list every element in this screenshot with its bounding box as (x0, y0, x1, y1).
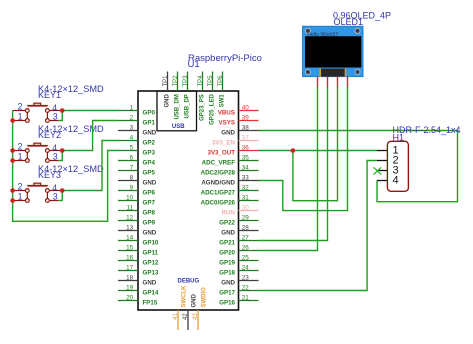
U1 pin 37 3V3_EN (212, 134, 259, 146)
svg-text:GP9: GP9 (143, 220, 156, 227)
U1 pin 40 VBUS (218, 104, 259, 116)
svg-text:18: 18 (126, 274, 134, 281)
junction (10, 118, 15, 123)
U1 pin 7 GP5 (118, 164, 155, 176)
pushbutton KEY1 (13, 102, 63, 123)
U1 pin 10 GP7 (118, 194, 155, 206)
U1 pin 33 AGND/GND (201, 174, 258, 186)
U1 pin 8 GND (118, 174, 157, 186)
U1 pin 26 GP20 (219, 244, 258, 256)
junction (60, 148, 65, 153)
DEBUG label (178, 278, 200, 284)
wire GND pin38 to H1 pin4 (259, 131, 458, 202)
svg-text:38: 38 (242, 124, 250, 131)
svg-text:GND: GND (143, 230, 157, 237)
junction (10, 158, 15, 163)
wire KEY3 to GP2 (62, 141, 118, 191)
svg-text:41: 41 (173, 313, 179, 320)
U1 pin TP3 (183, 72, 191, 119)
svg-text:GP4: GP4 (143, 160, 156, 167)
svg-text:GP13: GP13 (143, 270, 159, 277)
U1 pin 1 GP0 (118, 104, 155, 116)
svg-text:GP21: GP21 (219, 240, 235, 247)
junction (10, 198, 15, 203)
svg-text:3V3_EN: 3V3_EN (212, 140, 236, 147)
wire GP20 pin26 to OLED pin1 (259, 87, 318, 251)
svg-text:33: 33 (242, 174, 250, 181)
H1 pin 2 (377, 155, 399, 167)
wire GP21 pin27 to OLED pin2 (259, 87, 328, 241)
svg-text:GP25_LED: GP25_LED (210, 94, 216, 125)
U1 pin 13 GND (118, 224, 157, 236)
junction 3V3_OUT branch (291, 148, 296, 153)
OLED1 pin 1 (317, 77, 319, 87)
U1 pin TP4 (198, 72, 206, 121)
svg-text:TP1: TP1 (163, 75, 169, 87)
svg-text:GND: GND (143, 280, 157, 287)
svg-text:SW1: SW1 (220, 94, 226, 108)
U1 pin TP6 (218, 72, 226, 108)
wire 3V3_OUT branch to OLED pin3 (293, 87, 338, 201)
svg-text:GP6: GP6 (143, 190, 156, 197)
svg-text:KEY3: KEY3 (38, 170, 61, 180)
svg-text:GP11: GP11 (143, 250, 159, 257)
svg-text:3V3_OUT: 3V3_OUT (207, 150, 235, 157)
svg-text:GP7: GP7 (143, 200, 156, 207)
svg-text:GND: GND (221, 230, 235, 237)
text U1 reference labels (188, 53, 262, 70)
U1 pin 29 GP22 (219, 214, 258, 226)
svg-text:36: 36 (242, 144, 250, 151)
svg-text:2: 2 (18, 142, 23, 152)
svg-text:22: 22 (242, 284, 250, 291)
svg-text:25: 25 (242, 254, 250, 261)
wire KEY2 to GP1 (62, 121, 118, 151)
svg-text:TP2: TP2 (173, 75, 179, 87)
svg-text:34: 34 (242, 164, 250, 171)
connector H1 labels (393, 125, 461, 142)
svg-text:3: 3 (53, 151, 58, 161)
svg-text:1: 1 (18, 191, 23, 201)
svg-text:ADC0/GP26: ADC0/GP26 (201, 200, 236, 207)
svg-text:37: 37 (242, 134, 250, 141)
H1 pin 3 (377, 165, 399, 177)
svg-text:3: 3 (130, 124, 134, 131)
svg-text:USB_DP: USB_DP (185, 94, 191, 118)
H1 pin 4 (377, 175, 399, 187)
svg-text:17: 17 (126, 264, 134, 271)
svg-text:AGND/GND: AGND/GND (201, 180, 235, 187)
svg-text:31: 31 (242, 194, 250, 201)
svg-text:2: 2 (130, 114, 134, 121)
svg-text:GND: GND (221, 280, 235, 287)
svg-text:30: 30 (242, 204, 250, 211)
U1 pin 15 GP11 (118, 244, 159, 256)
svg-text:16: 16 (126, 254, 134, 261)
U1 pin 20 FP15 (118, 294, 158, 306)
svg-text:DEBUG: DEBUG (178, 278, 200, 284)
svg-text:GP23_PS: GP23_PS (200, 94, 206, 121)
U1 pin 16 GP12 (118, 254, 159, 266)
svg-text:GP22: GP22 (219, 220, 235, 227)
svg-text:GP3: GP3 (143, 150, 156, 157)
U1 pin 22 GP17 (219, 284, 258, 296)
svg-text:GP5: GP5 (143, 170, 156, 177)
svg-text:USB_DM: USB_DM (175, 94, 181, 119)
OLED1 pin 2 (327, 77, 329, 87)
svg-text:6: 6 (130, 154, 134, 161)
svg-text:27: 27 (242, 234, 250, 241)
svg-text:OLED1: OLED1 (334, 17, 364, 27)
svg-text:15: 15 (126, 244, 134, 251)
svg-text:GND: GND (143, 180, 157, 187)
U1 pin 38 GND (221, 124, 258, 136)
junction (10, 148, 15, 153)
U1 pin 11 GP8 (118, 204, 155, 216)
svg-text:10: 10 (126, 194, 134, 201)
U1 pin 31 ADC0/GP26 (201, 194, 259, 206)
U1 pin 30 RUN (222, 204, 259, 216)
svg-text:KEY1: KEY1 (38, 90, 61, 100)
pushbutton KEY2 labels (38, 124, 104, 140)
svg-text:GP12: GP12 (143, 260, 159, 267)
USB section box (157, 91, 197, 131)
svg-text:4: 4 (393, 175, 399, 187)
U1 pin 36 3V3_OUT (207, 144, 258, 156)
wire AGND pin33 to OLED pin4 (259, 87, 348, 211)
wire keys common to GP3 (13, 111, 118, 222)
MCU U1 body (138, 91, 239, 310)
U1 pin 4 GP2 (118, 134, 155, 146)
U1 pin 9 GP6 (118, 184, 155, 196)
svg-text:35: 35 (242, 154, 250, 161)
svg-text:5: 5 (130, 144, 134, 151)
U1 pin 5 GP3 (118, 144, 155, 156)
svg-text:2: 2 (18, 102, 23, 112)
U1 pin TP2 (173, 72, 181, 120)
svg-text:SWCLK: SWCLK (182, 285, 188, 308)
svg-text:GP1: GP1 (143, 120, 156, 127)
U1 pin TP5 (208, 72, 216, 125)
U1 pin 17 GP13 (118, 264, 159, 276)
svg-text:SWDIO: SWDIO (202, 287, 208, 308)
svg-text:40: 40 (242, 104, 250, 111)
svg-text:42: 42 (183, 313, 189, 320)
U1 pin 23 GND (221, 274, 258, 286)
svg-text:26: 26 (242, 244, 250, 251)
svg-text:U1: U1 (188, 59, 200, 70)
U1 pin 41 SWCLK (173, 285, 188, 330)
svg-text:28: 28 (242, 224, 250, 231)
U1 pin 28 GND (221, 224, 258, 236)
U1 pin 18 GND (118, 274, 157, 286)
svg-text:1: 1 (130, 104, 134, 111)
svg-text:32: 32 (242, 184, 250, 191)
OLED1 pin 4 (347, 77, 349, 87)
svg-text:3: 3 (53, 111, 58, 121)
connector H1 body (387, 141, 408, 191)
svg-text:13: 13 (126, 224, 134, 231)
svg-text:19: 19 (126, 284, 134, 291)
svg-text:GND: GND (165, 94, 171, 108)
U1 pin 12 GP9 (118, 214, 155, 226)
wire 3V3_OUT pin36 to H1 pin1 (259, 150, 378, 152)
svg-text:23: 23 (242, 274, 250, 281)
svg-text:KEY2: KEY2 (38, 130, 61, 140)
svg-text:GP8: GP8 (143, 210, 156, 217)
U1 pin 14 GP10 (118, 234, 159, 246)
svg-text:43: 43 (193, 313, 199, 320)
svg-text:GP0: GP0 (143, 110, 156, 117)
U1 pin TP1 (163, 72, 171, 108)
svg-text:14: 14 (126, 234, 134, 241)
U1 pin 42 GND (183, 294, 198, 331)
svg-text:GP18: GP18 (219, 270, 235, 277)
U1 pin 35 ADC_VREF (202, 154, 259, 166)
svg-text:8: 8 (130, 174, 134, 181)
svg-text:TP4: TP4 (198, 75, 204, 87)
svg-text:FP15: FP15 (143, 300, 158, 307)
junction (60, 188, 65, 193)
pushbutton KEY3 (13, 182, 63, 203)
U1 pin 6 GP4 (118, 154, 155, 166)
svg-text:2: 2 (18, 182, 23, 192)
wire KEY1 pins3-4 link (59, 111, 63, 121)
U1 pin 3 GND (118, 124, 157, 136)
H1 pin 1 (377, 145, 399, 157)
U1 pin 21 GP16 (219, 294, 258, 306)
svg-text:Hello World!!!: Hello World!!! (307, 32, 338, 38)
svg-text:GP2: GP2 (143, 140, 156, 147)
U1 pin 24 GP18 (219, 264, 258, 276)
svg-text:TP5: TP5 (208, 75, 214, 87)
svg-text:11: 11 (127, 204, 134, 211)
svg-text:GP20: GP20 (219, 250, 235, 257)
svg-text:29: 29 (242, 214, 250, 221)
svg-text:39: 39 (242, 114, 250, 121)
U1 pin 19 GP14 (118, 284, 159, 296)
display OLED1 module (303, 26, 364, 76)
pushbutton KEY3 labels (38, 164, 104, 180)
svg-text:VBUS: VBUS (218, 110, 235, 117)
U1 pin 43 SWDIO (193, 287, 208, 330)
svg-text:GP10: GP10 (143, 240, 159, 247)
display OLED1 labels (333, 11, 391, 28)
svg-text:USB: USB (172, 124, 185, 130)
svg-text:7: 7 (130, 164, 134, 171)
svg-text:TP6: TP6 (218, 75, 224, 87)
svg-text:9: 9 (130, 184, 134, 191)
pushbutton KEY2 (13, 142, 63, 163)
junction (60, 108, 65, 113)
svg-text:4: 4 (130, 134, 134, 141)
U1 pin 2 GP1 (118, 114, 155, 126)
pushbutton KEY1 labels (38, 84, 104, 100)
OLED1 pin 3 (337, 77, 339, 87)
svg-text:GP16: GP16 (219, 300, 235, 307)
svg-text:GP19: GP19 (219, 260, 235, 267)
wire KEY1 to GP0 (62, 110, 118, 112)
U1 pin 39 VSYS (218, 114, 258, 126)
no-connect X on H1 pin3 (374, 167, 382, 174)
svg-text:GND: GND (192, 294, 198, 308)
svg-text:GND: GND (143, 130, 157, 137)
svg-text:GP17: GP17 (219, 290, 235, 297)
svg-text:GND: GND (221, 130, 235, 137)
U1 pin 27 GP21 (219, 234, 258, 246)
svg-text:VSYS: VSYS (218, 120, 235, 127)
wire KEY2 pins3-4 link (59, 151, 63, 161)
svg-text:21: 21 (242, 294, 250, 301)
U1 pin 32 ADC1/GP27 (201, 184, 259, 196)
svg-text:RUN: RUN (222, 210, 236, 217)
wire KEY3 pins3-4 link (59, 191, 63, 201)
svg-text:ADC_VREF: ADC_VREF (202, 160, 236, 167)
junction (10, 188, 15, 193)
svg-text:ADC2/GP28: ADC2/GP28 (201, 170, 236, 177)
svg-text:1: 1 (18, 111, 23, 121)
svg-text:12: 12 (126, 214, 134, 221)
U1 pin 34 ADC2/GP28 (201, 164, 259, 176)
svg-text:3: 3 (53, 191, 58, 201)
svg-text:20: 20 (126, 294, 134, 301)
svg-text:TP3: TP3 (183, 75, 189, 87)
svg-text:24: 24 (242, 264, 250, 271)
U1 pin 25 GP19 (219, 254, 258, 266)
svg-text:ADC1/GP27: ADC1/GP27 (201, 190, 236, 197)
svg-text:GP14: GP14 (143, 290, 159, 297)
svg-text:1: 1 (18, 151, 23, 161)
wire GP17 pin22 to H1 pin2 (259, 161, 378, 291)
